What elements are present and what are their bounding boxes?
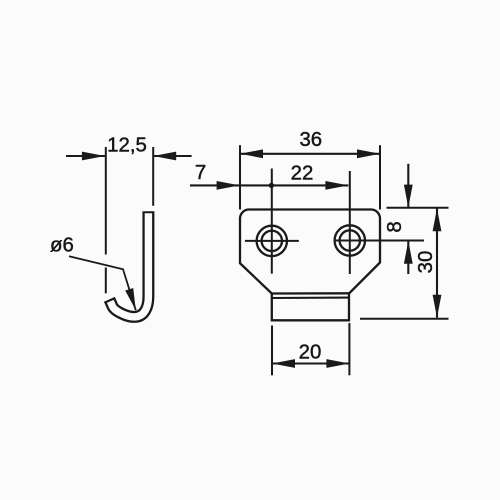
bracket plate front view outline xyxy=(240,210,380,321)
arrow of dimension 7 xyxy=(217,181,240,190)
extension line from plate top to the right xyxy=(387,207,449,209)
hole 1 inner circle xyxy=(262,231,282,251)
extension line right of 36 dimension xyxy=(379,145,381,209)
hole 1 vertical centerline xyxy=(271,169,273,274)
extension line from tab bottom to the right xyxy=(360,318,449,320)
svg-text:22: 22 xyxy=(291,163,314,185)
dimension 36 line with outward arrows xyxy=(240,149,380,158)
dimension 12,5 line left segment with arrow xyxy=(66,152,105,161)
hole 1 horizontal centerline xyxy=(245,240,299,242)
dimension 12,5 line right segment with arrow xyxy=(153,152,191,161)
hook side view (bent strip outline) xyxy=(109,211,148,317)
hole 1 outer circle xyxy=(257,226,287,256)
arrow of dimension 22 xyxy=(325,181,348,190)
leader line from ø6 to hook xyxy=(69,256,136,310)
dimension 8 upper line with down arrow xyxy=(404,164,413,208)
svg-text:36: 36 xyxy=(299,129,322,151)
svg-text:ø6: ø6 xyxy=(50,235,74,257)
dimension 20 line with outward arrows xyxy=(272,359,349,368)
svg-text:8: 8 xyxy=(384,221,406,232)
hole 2 inner circle xyxy=(340,230,360,250)
dimension 30 line with outward arrows xyxy=(433,208,442,318)
hole 2 outer circle xyxy=(335,225,365,255)
svg-text:30: 30 xyxy=(415,251,437,274)
extension line left of 36 dimension xyxy=(239,145,241,209)
dot at hole 1 center line origin xyxy=(269,183,274,188)
bend line upper on tab xyxy=(272,292,349,295)
extension line left of 12,5 dimension xyxy=(105,147,107,293)
dimension 8 lower line with up arrow xyxy=(404,241,413,274)
extension line right of 20 dimension xyxy=(348,323,350,375)
svg-text:20: 20 xyxy=(299,342,322,364)
svg-text:7: 7 xyxy=(195,162,206,184)
bend line lower on tab xyxy=(272,297,349,299)
extension line right of 12,5 dimension xyxy=(152,147,154,206)
dimension 7 / 22 shared line xyxy=(190,184,348,186)
hole 2 horizontal centerline extended right xyxy=(336,240,424,242)
extension line left of 20 dimension xyxy=(271,326,273,376)
hole 2 vertical centerline xyxy=(349,171,351,274)
svg-text:12,5: 12,5 xyxy=(107,135,147,157)
